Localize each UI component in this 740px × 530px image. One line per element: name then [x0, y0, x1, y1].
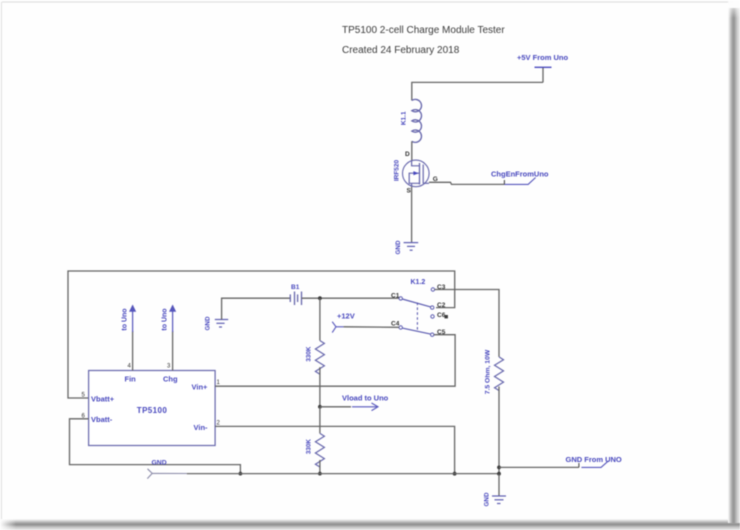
relay contacts K1.2: [391, 279, 448, 336]
svg-text:C6: C6: [437, 312, 446, 319]
svg-text:TP5100 2-cell Charge Module Te: TP5100 2-cell Charge Module Tester: [342, 25, 505, 36]
svg-text:Vin+: Vin+: [192, 382, 209, 391]
svg-text:C2: C2: [437, 302, 446, 309]
wire Vload stub: [320, 406, 351, 408]
wire R1 to Vload junction: [319, 367, 321, 407]
svg-text:TP5100: TP5100: [137, 406, 168, 415]
wire battery to C1: [302, 297, 400, 299]
contact C6: [431, 315, 434, 318]
wire C3 to load resistor: [435, 290, 499, 357]
page frame top: [2, 2, 733, 3]
wire junction down to R1: [319, 298, 321, 340]
net arrow to Uno (Fin): [122, 305, 137, 333]
svg-text:+12V: +12V: [337, 312, 355, 321]
svg-text:Fin: Fin: [125, 375, 137, 384]
svg-text:B1: B1: [291, 284, 300, 291]
bottom rail wire: [187, 473, 499, 475]
junction Vbatt- bottom: [239, 472, 243, 476]
contact C3: [431, 288, 434, 291]
net label Vload to Uno: [342, 393, 389, 410]
contact C1: [399, 297, 402, 300]
IC U1 TP5100 box: [89, 371, 216, 446]
svg-text:K1.1: K1.1: [401, 111, 408, 125]
wire R2 to bottom rail: [319, 460, 321, 474]
wire gate to ChgEnFromUno: [429, 182, 504, 184]
junction load column lower: [497, 472, 501, 476]
contact C4: [399, 326, 402, 329]
svg-text:to Uno: to Uno: [162, 308, 169, 330]
svg-text:ChgEnFromUno: ChgEnFromUno: [491, 170, 549, 179]
net label GND From UNO: [566, 455, 622, 468]
wire C5 to Vin+: [215, 335, 455, 387]
svg-text:+5V From Uno: +5V From Uno: [517, 53, 568, 62]
page shadow right: [728, 8, 740, 523]
resistor R2 330K: [306, 433, 325, 467]
net label GND (bottom left): [147, 460, 187, 479]
svg-text:GND From UNO: GND From UNO: [566, 455, 622, 464]
wire +12V to C4: [344, 326, 399, 329]
contact C2: [431, 306, 434, 309]
svg-text:D: D: [405, 151, 410, 158]
junction Vload: [318, 405, 322, 409]
wire source to ground: [411, 187, 413, 243]
svg-text:Vbatt+: Vbatt+: [91, 394, 115, 403]
wire loop C2 to Vbatt+ (big rectangle): [68, 271, 455, 398]
wire Vbatt- loop: [70, 419, 241, 474]
wire +5V vertical drop: [542, 68, 544, 83]
svg-text:GND: GND: [205, 316, 212, 330]
page shadow bottom: [0, 519, 740, 530]
power flag +5V From Uno: [517, 53, 568, 67]
resistor R1 330K: [306, 341, 325, 375]
resistor R3 7.5 Ohm 10W: [485, 349, 504, 394]
net label ChgEnFromUno: [491, 170, 549, 185]
svg-text:Vbatt-: Vbatt-: [91, 415, 113, 424]
contact C5: [431, 333, 434, 336]
svg-text:GND: GND: [395, 240, 402, 254]
wire +5V horizontal to coil: [412, 82, 543, 100]
net arrow to Uno (Chg): [162, 305, 177, 333]
junction load column upper: [497, 466, 501, 470]
svg-text:IRF520: IRF520: [394, 159, 401, 181]
junction Vin- bottom: [453, 472, 457, 476]
wire pin4 Fin up: [132, 331, 134, 371]
svg-text:Created 24 February 2018: Created 24 February 2018: [342, 45, 460, 56]
ground GND (mosfet source): [395, 240, 418, 254]
mechanical link dashed: [416, 303, 418, 332]
wire down to bottom ground: [498, 474, 500, 496]
wire coil to MOSFET drain: [411, 141, 413, 160]
svg-text:Vload to Uno: Vload to Uno: [342, 393, 389, 402]
junction battery/330K: [318, 296, 322, 300]
svg-text:Vin-: Vin-: [194, 423, 209, 432]
battery B1: [290, 284, 301, 305]
switch arm C1-C2: [402, 299, 430, 307]
wire Vin- to bottom rail: [215, 426, 455, 473]
svg-text:330K: 330K: [306, 439, 313, 455]
wire GND From UNO branch: [499, 466, 579, 468]
switch arm C4-C5: [402, 328, 430, 334]
net label +12V: [332, 312, 355, 333]
svg-text:GND: GND: [484, 492, 491, 506]
wire R3 to bottom: [498, 387, 500, 474]
svg-text:330K: 330K: [306, 346, 313, 362]
svg-text:K1.2: K1.2: [411, 279, 426, 286]
svg-text:S: S: [407, 188, 412, 195]
svg-text:to Uno: to Uno: [122, 308, 129, 330]
svg-text:7.5 Ohm, 10W: 7.5 Ohm, 10W: [485, 349, 492, 394]
svg-text:GND: GND: [152, 460, 167, 467]
svg-text:C1: C1: [391, 293, 400, 300]
svg-text:C4: C4: [391, 320, 400, 327]
page frame left: [1, 2, 2, 521]
wire Vload down to R2: [319, 407, 321, 434]
ground GND (bottom): [484, 492, 507, 506]
ground GND (battery): [205, 316, 229, 330]
wire gnd to battery: [222, 298, 291, 319]
junction R2 bottom: [318, 472, 322, 476]
wire pin3 Chg up: [172, 331, 174, 371]
transistor Q1 IRF520: [394, 159, 430, 186]
relay coil K1.1: [401, 99, 422, 142]
svg-text:Chg: Chg: [163, 375, 178, 384]
